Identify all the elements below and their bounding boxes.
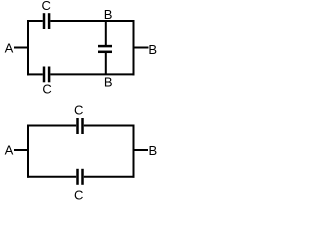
svg-text:C: C xyxy=(42,82,51,97)
svg-text:C: C xyxy=(42,0,51,13)
svg-text:B: B xyxy=(104,7,113,22)
svg-text:C: C xyxy=(74,187,83,202)
svg-text:C: C xyxy=(74,103,83,118)
svg-text:B: B xyxy=(148,42,157,57)
svg-text:A: A xyxy=(5,41,14,56)
svg-text:B: B xyxy=(149,143,158,158)
svg-text:B: B xyxy=(104,75,113,90)
svg-text:A: A xyxy=(5,143,14,158)
